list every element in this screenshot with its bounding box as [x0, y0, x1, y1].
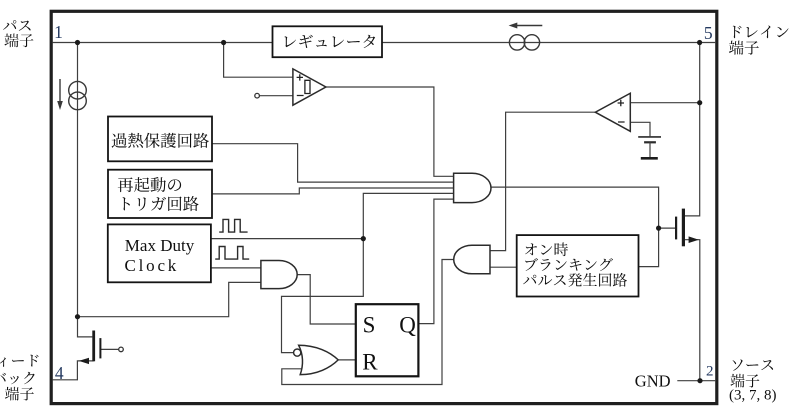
wire: AND2 output to flip-flop S input — [297, 275, 356, 324]
wire: rail tap to comparator U1 plus input — [224, 43, 293, 78]
Q2 gate open terminal — [119, 347, 124, 352]
wire: left MOSFET source to pin 4 — [53, 361, 94, 380]
wire: clock node down to NOR bubble input — [282, 239, 364, 353]
restart trigger block — [108, 170, 212, 218]
svg-text:5: 5 — [704, 23, 713, 43]
wire: restart box output to AND1 input 3 — [212, 188, 454, 194]
AND gate AND2 — [261, 261, 297, 289]
regulator block — [273, 26, 383, 57]
svg-text:S: S — [363, 312, 376, 337]
Q2 gate bar — [99, 338, 101, 358]
feedback MOSFET Q2 (left) channel bar — [92, 331, 95, 362]
label source terminal pins 3,7,8 — [733, 360, 774, 371]
wire: AND3 output down and across to NOR lower input — [282, 260, 454, 385]
U1 hysteresis symbol — [305, 80, 310, 93]
U1 minus input open terminal — [255, 93, 260, 98]
wire: MOSFET source down to GND node — [683, 240, 699, 381]
svg-text:4: 4 — [55, 363, 64, 383]
label drain terminal (pin5) — [733, 26, 789, 39]
wire: blanking box left output to AND3 lower input — [490, 266, 517, 268]
wire: GND node to pin 2 on frame — [677, 380, 715, 382]
wire: max duty clock output to node and AND1 input 4 — [211, 193, 454, 238]
wire: U2 minus input to reference — [630, 122, 650, 136]
Q1 source arrow — [689, 236, 699, 243]
thermal protection block — [108, 117, 212, 162]
I2 arrow pointing left — [517, 25, 543, 27]
svg-text:Clock: Clock — [125, 256, 180, 275]
AND gate AND3 (mirrored, output at left) — [454, 245, 490, 274]
NOR/OR gate at flip-flop R input — [299, 345, 339, 374]
svg-text:Max Duty: Max Duty — [125, 236, 195, 255]
wire: gate node down to blanking box right side — [639, 228, 659, 267]
wire: flip-flop Q output up to AND1 input 5 — [418, 199, 453, 324]
NOR input inversion bubble — [294, 349, 301, 356]
op-amp U2 current limit comparator — [595, 93, 630, 131]
wire: left MOSFET gate lead to open terminal — [100, 348, 118, 350]
wire: top rail pin1 to pin5 — [53, 42, 716, 44]
op-amp U1 regulator comparator — [293, 69, 326, 105]
current source I2 (drain rail, horizontal) — [509, 35, 524, 50]
node rail-bias — [75, 40, 80, 45]
wire: U1 minus input from open terminal — [259, 95, 293, 97]
node clock-node — [361, 236, 366, 241]
label bypass terminal (pin1) — [0, 20, 31, 32]
wire: feedback node to AND2 lower input — [78, 282, 261, 316]
svg-text:2: 2 — [706, 364, 714, 380]
AND gate AND1 (5 input) — [454, 173, 491, 202]
wire: max duty clock second output to AND2 upper input — [211, 267, 261, 269]
label feedback terminal (pin4) — [0, 355, 39, 367]
max duty clock block — [108, 224, 211, 282]
wire: drain vertical from rail to MOSFET drain — [683, 43, 699, 216]
node feedback-node — [75, 314, 80, 319]
wire: bias vertical from rail through current source to feedback node and left MOSFET drain — [78, 43, 93, 337]
node gnd-node — [697, 378, 702, 383]
IC outline frame — [51, 11, 717, 403]
svg-text:(3, 7, 8): (3, 7, 8) — [729, 387, 777, 403]
reference source plates — [638, 136, 661, 138]
svg-text:1: 1 — [54, 22, 63, 42]
wire: thermal box output to AND1 input 2 — [212, 144, 454, 182]
svg-text:Q: Q — [399, 312, 416, 337]
wire: AND1 output to MOSFET gate node — [491, 187, 675, 228]
on-time blanking pulse generator block — [517, 235, 639, 296]
Q2 source arrow — [79, 358, 89, 364]
ground bar — [641, 157, 658, 160]
node u2-plus-node — [697, 100, 702, 105]
node rail-reg-tap — [221, 40, 226, 45]
wire: comparator U2 plus input from drain line — [630, 102, 699, 104]
SR flip-flop block — [356, 304, 419, 376]
svg-text:R: R — [362, 350, 378, 375]
current source I1 (bias, vertical) — [69, 81, 87, 99]
Q1 channel bar — [682, 209, 685, 247]
svg-text:GND: GND — [635, 371, 671, 390]
power MOSFET Q1 (right) gate bar — [675, 217, 677, 240]
clock waveform symbol upper — [219, 219, 247, 232]
wire: U1 output to AND1 input 1 — [326, 87, 454, 176]
node gate-node — [656, 226, 661, 231]
bias current arrow — [59, 79, 61, 102]
clock waveform symbol lower — [215, 247, 249, 260]
node rail-pin5 — [697, 40, 702, 45]
wire: NOR output to flip-flop R input — [338, 359, 356, 361]
wire: U2 output to AND3 upper input — [490, 112, 595, 250]
